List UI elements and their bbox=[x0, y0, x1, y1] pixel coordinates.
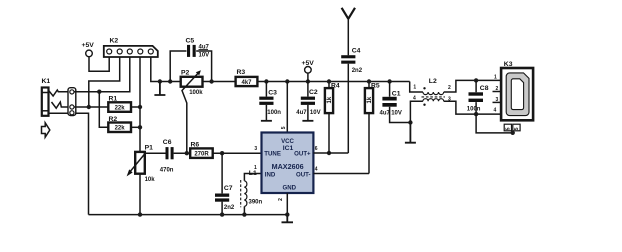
svg-text:GND: GND bbox=[283, 184, 297, 191]
junction C5 right bbox=[209, 79, 213, 83]
wire: K2 pin 5 to supply rail bbox=[151, 57, 181, 82]
svg-text:K3: K3 bbox=[504, 61, 513, 68]
capacitor C4 bbox=[341, 55, 355, 153]
ground symbol C3 bbox=[261, 120, 272, 122]
svg-text:10V: 10V bbox=[391, 111, 402, 117]
wire: C6 right to R6 bbox=[174, 152, 191, 154]
svg-text:3: 3 bbox=[496, 97, 499, 103]
ground symbol at rail bbox=[154, 82, 165, 96]
junction P1 bottom bbox=[138, 212, 142, 216]
wire: +5V to K2 pin 1 bbox=[89, 57, 109, 71]
svg-text:2: 2 bbox=[278, 198, 284, 201]
svg-text:4u7: 4u7 bbox=[296, 110, 307, 116]
junction C3 bbox=[264, 79, 268, 83]
svg-text:IND: IND bbox=[265, 172, 276, 179]
svg-text:L2: L2 bbox=[429, 78, 437, 85]
svg-text:+5V: +5V bbox=[302, 60, 315, 67]
capacitor C3 bbox=[259, 82, 273, 121]
junction C8 bottom / shield bbox=[474, 112, 478, 116]
svg-text:1k: 1k bbox=[327, 96, 333, 103]
svg-text:K1: K1 bbox=[42, 78, 51, 85]
svg-text:P1: P1 bbox=[145, 145, 154, 152]
resistor R1 bbox=[108, 102, 131, 112]
junction C1 bottom / L2 pin4 / ground bbox=[408, 120, 412, 124]
junction C7 bottom bbox=[220, 212, 224, 216]
+5V terminal mid bbox=[305, 67, 312, 74]
connector K2 bbox=[104, 46, 158, 57]
junction L1 bottom bbox=[242, 212, 246, 216]
svg-text:22k: 22k bbox=[115, 126, 126, 132]
svg-text:2n2: 2n2 bbox=[224, 205, 235, 211]
junction tip net bbox=[97, 90, 101, 94]
connector K3 USB socket bbox=[501, 68, 533, 120]
junction shield bbox=[511, 131, 515, 135]
svg-text:C6: C6 bbox=[163, 139, 172, 146]
junction R4 top bbox=[327, 79, 331, 83]
K3 pin 2 stub bbox=[493, 91, 502, 93]
wire: tip net to R2 bbox=[99, 92, 108, 128]
svg-text:1: 1 bbox=[413, 85, 416, 91]
resistor R5 bbox=[365, 82, 373, 174]
junction audio node R1 bbox=[138, 105, 142, 109]
svg-text:3: 3 bbox=[254, 146, 257, 152]
ground symbol IC1 bbox=[282, 215, 294, 223]
svg-text:+5V: +5V bbox=[82, 42, 95, 49]
svg-text:2: 2 bbox=[496, 86, 499, 92]
resistor R3 bbox=[236, 77, 258, 86]
svg-text:100k: 100k bbox=[189, 90, 203, 96]
junction C7 top bbox=[220, 151, 224, 155]
transformer L2 bbox=[422, 87, 445, 106]
wire: IC1 OUT- pin 4 to R5 bbox=[313, 173, 369, 175]
svg-text:5: 5 bbox=[514, 127, 520, 130]
wire: L2 pin 4 to ground junction bbox=[410, 101, 423, 122]
junction audio node R2 bbox=[138, 125, 142, 129]
resistor R2 bbox=[108, 123, 131, 133]
resistor R6 bbox=[190, 148, 213, 158]
wire: tip net K1 to K2 pin 3 bbox=[74, 57, 130, 92]
svg-text:390n: 390n bbox=[249, 200, 263, 206]
ground symbol C2 bbox=[302, 120, 313, 122]
junction ring net bbox=[87, 105, 91, 109]
P2 wiper arrow bbox=[182, 70, 201, 153]
potentiometer P1 bbox=[127, 152, 146, 177]
svg-text:4u7: 4u7 bbox=[380, 111, 391, 117]
svg-text:22k: 22k bbox=[115, 105, 126, 111]
K3 pin 3 stub bbox=[493, 101, 502, 103]
junction IC VCC bbox=[285, 79, 289, 83]
svg-text:5: 5 bbox=[506, 127, 512, 130]
svg-text:100n: 100n bbox=[267, 110, 281, 116]
wire: K2 pin 2 to ring net bbox=[89, 57, 120, 107]
svg-text:MAX2606: MAX2606 bbox=[272, 162, 304, 171]
+5V terminal left bbox=[86, 50, 93, 57]
wire: IC1 OUT+ pin 6 to C4 bbox=[313, 152, 348, 154]
svg-text:4: 4 bbox=[315, 166, 318, 172]
wire: L2 pin 2 to K3 pin 1 bbox=[444, 80, 501, 92]
svg-text:4: 4 bbox=[494, 108, 497, 114]
wire: C5 right lead bbox=[196, 51, 211, 82]
svg-text:C1: C1 bbox=[392, 90, 401, 97]
ground symbol C1 bbox=[405, 123, 416, 143]
svg-text:470n: 470n bbox=[160, 167, 174, 173]
junction ground tap bbox=[158, 79, 162, 83]
wire: P1 wiper to C6 bbox=[146, 152, 166, 154]
svg-text:4k7: 4k7 bbox=[241, 80, 252, 86]
svg-text:C3: C3 bbox=[268, 90, 277, 97]
potentiometer P2 bbox=[181, 77, 203, 87]
svg-text:10k: 10k bbox=[145, 177, 156, 183]
svg-text:TUNE: TUNE bbox=[264, 151, 281, 158]
K1 ring switch contact bbox=[52, 102, 71, 108]
svg-text:C2: C2 bbox=[309, 89, 318, 96]
junction ground rail IC bbox=[285, 212, 289, 216]
wire: R2 right lead bbox=[131, 126, 140, 128]
junction R5 top bbox=[367, 79, 371, 83]
svg-text:C8: C8 bbox=[480, 85, 489, 92]
antenna bbox=[342, 8, 355, 56]
IC1 MAX2606 bbox=[262, 133, 314, 194]
svg-text:2: 2 bbox=[448, 85, 451, 91]
capacitor C8 bbox=[469, 80, 484, 114]
wire: IC1 GND pin 2 to ground rail bbox=[286, 193, 288, 215]
signal direction arrow bbox=[42, 123, 50, 137]
wire: K1 sleeve to ground rail bbox=[49, 113, 89, 214]
junction R4 bottom / OUT+ bbox=[327, 151, 331, 155]
connector K1 jack socket body bbox=[42, 88, 49, 116]
svg-text:P2: P2 bbox=[181, 69, 190, 76]
junction C2 / +5V bbox=[306, 79, 310, 83]
K3 shield pin cells bbox=[504, 124, 520, 133]
svg-text:10V: 10V bbox=[310, 110, 321, 116]
svg-text:2n2: 2n2 bbox=[352, 68, 363, 74]
svg-text:R5: R5 bbox=[371, 83, 380, 90]
svg-text:R4: R4 bbox=[331, 83, 340, 90]
3-pin socket strip at K1 bbox=[68, 88, 76, 116]
svg-text:5: 5 bbox=[281, 126, 287, 129]
svg-text:OUT-: OUT- bbox=[296, 172, 311, 179]
junction C1 top bbox=[387, 79, 391, 83]
svg-text:1: 1 bbox=[494, 75, 497, 81]
svg-text:6: 6 bbox=[315, 146, 318, 152]
wire: L2 pin 3 to K3 pin 4 bbox=[444, 101, 501, 114]
junction C5 left bbox=[168, 79, 172, 83]
wire: rail P2 right to R3 bbox=[203, 81, 236, 83]
wire: R1 right lead bbox=[131, 106, 140, 108]
ground rail bottom bbox=[89, 214, 288, 216]
svg-text:OUT+: OUT+ bbox=[294, 151, 311, 158]
capacitor C6 bbox=[166, 147, 174, 159]
svg-text:4: 4 bbox=[413, 95, 416, 101]
svg-text:IC1: IC1 bbox=[283, 145, 294, 152]
junction C8 top bbox=[474, 78, 478, 82]
svg-text:1k: 1k bbox=[367, 96, 373, 103]
svg-text:1: 1 bbox=[254, 165, 257, 171]
inductor L1 bbox=[241, 174, 262, 215]
K1 tip switch contact bbox=[49, 90, 71, 96]
svg-text:270R: 270R bbox=[194, 152, 209, 158]
wire: C5 left lead bbox=[170, 51, 186, 82]
svg-text:R2: R2 bbox=[109, 116, 118, 123]
wire: ring net K1 to R1 bbox=[74, 106, 108, 108]
wire: K2 pin 4 to audio node and P1 top bbox=[139, 57, 141, 152]
capacitor C2 bbox=[301, 82, 315, 121]
svg-text:R1: R1 bbox=[109, 96, 118, 103]
junction P2 wiper / C6 / R6 bbox=[185, 151, 189, 155]
wire: rail corner to L2 pin 1 bbox=[410, 82, 423, 93]
wire: P1 bottom to ground rail bbox=[139, 174, 141, 215]
svg-text:C7: C7 bbox=[224, 185, 233, 192]
capacitor C5 bbox=[187, 45, 196, 57]
svg-text:C4: C4 bbox=[352, 48, 361, 55]
svg-text:100n: 100n bbox=[467, 106, 481, 112]
svg-text:R6: R6 bbox=[191, 142, 200, 149]
wire: R6 to IC1 TUNE pin 3 bbox=[213, 152, 262, 154]
svg-text:K2: K2 bbox=[110, 38, 119, 45]
resistor R4 bbox=[325, 82, 333, 154]
wire: +5V to rail bbox=[307, 73, 309, 81]
svg-text:R3: R3 bbox=[237, 69, 246, 76]
wire: rail to IC1 VCC pin 5 bbox=[286, 82, 288, 133]
capacitor C7 bbox=[215, 153, 229, 214]
svg-text:10V: 10V bbox=[199, 53, 210, 59]
svg-text:C5: C5 bbox=[186, 37, 195, 44]
capacitor C1 bbox=[382, 82, 410, 123]
svg-text:L1: L1 bbox=[249, 170, 257, 177]
wire: shield to ground net bbox=[476, 114, 513, 133]
svg-text:VCC: VCC bbox=[281, 138, 294, 145]
wire: supply rail R3 to L2 bbox=[257, 81, 409, 83]
